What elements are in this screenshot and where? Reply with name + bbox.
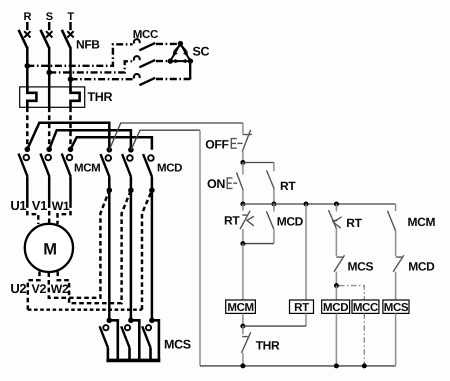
wire dashed R below THR [26, 107, 29, 149]
wire dashed U2 to MCS/MCD pole3 [28, 190, 152, 310]
label OFF [205, 137, 228, 151]
terminal X mark R [24, 31, 30, 37]
wire phase S vertical to THR [48, 47, 51, 107]
label SC [193, 45, 210, 59]
svg-text:MCM: MCM [408, 215, 436, 229]
contactor MCC pole 1 [134, 39, 155, 50]
node bottom rail at MCD [334, 363, 339, 368]
wire dashed U1 to motor [27, 203, 38, 224]
thermal relay THR box [20, 87, 85, 107]
label R [23, 11, 31, 23]
label MCD (interlock) [408, 260, 435, 274]
node MCC link [334, 283, 339, 288]
label MCD (row3) [277, 215, 304, 229]
wire dash-dot row1 R to MCC contact 1 [27, 44, 177, 66]
contact RT NC timed (branch1) [240, 204, 254, 244]
contact MCD interlock (NO) [243, 204, 274, 244]
wire phase R vertical to THR [26, 47, 29, 91]
terminal X mark S [46, 31, 52, 37]
contactor MCS pole 1 [100, 320, 118, 360]
svg-text:MCM: MCM [74, 163, 100, 175]
svg-text:MCS: MCS [384, 302, 409, 314]
wire dash-dot row2 S to MCC contact 2 [49, 61, 167, 72]
wire RT coil bottom to join [243, 313, 306, 326]
contactor MCM pole 2 [40, 154, 51, 204]
node MCD pole 2 top [128, 147, 134, 153]
svg-text:T: T [67, 11, 74, 23]
label ON [207, 177, 225, 191]
pushbutton OFF [231, 130, 252, 163]
breaker NFB pole R blade [19, 30, 28, 48]
svg-text:MCS: MCS [164, 338, 191, 352]
svg-text:NFB: NFB [76, 38, 100, 52]
label W1 [52, 199, 70, 213]
node MCS pole 2 top [128, 318, 134, 324]
svg-text:THR: THR [88, 90, 113, 104]
wire MCD coil bottom [335, 313, 337, 366]
node S tap to MCC [46, 70, 52, 76]
wire control tap L2 to left rail [131, 130, 200, 366]
wire dashed S below THR [48, 107, 51, 149]
coil MCS [383, 300, 409, 314]
wire dash-dot row3 T to SC riser [71, 78, 191, 81]
svg-text:RT: RT [346, 216, 362, 230]
svg-text:RT: RT [294, 302, 309, 314]
motor M [25, 224, 73, 272]
coil MCC [352, 300, 379, 314]
wire MCD coil feed [335, 286, 337, 300]
label S [46, 11, 53, 23]
label MCM (aux) [408, 215, 436, 229]
contactor MCS pole 2 [121, 320, 139, 360]
wire bus R to MCD pole 1 [27, 123, 109, 150]
node MCD pole 2 delta junction [128, 187, 134, 193]
svg-text:MCD: MCD [323, 302, 348, 314]
node R tap to MCC [25, 63, 31, 69]
wire dashed V1 to motor [48, 203, 50, 223]
contactor MCD pole 3 [143, 154, 154, 320]
wire SC right vertex riser [189, 61, 191, 79]
svg-text:MCD: MCD [408, 260, 435, 274]
node row3 bottom [240, 241, 245, 246]
THR heater element R [27, 87, 36, 108]
label THR [88, 90, 113, 104]
label U1 [10, 198, 26, 213]
svg-text:MCS: MCS [348, 260, 374, 274]
label THR (control) [256, 339, 280, 353]
wire dashed W2 to MCD pole2 [58, 190, 131, 303]
wire MCS coil bottom [395, 313, 397, 366]
label W2 [51, 282, 69, 296]
node row3 mid [271, 202, 276, 207]
wire MCM coil bottom [242, 313, 244, 326]
label RT (timed NO) [346, 216, 362, 230]
THR heater element T [71, 87, 80, 108]
svg-text:OFF: OFF [205, 137, 228, 151]
svg-text:V1: V1 [32, 198, 47, 213]
label V2 [32, 282, 47, 296]
wire bus T to MCD pole 3 [71, 137, 152, 150]
svg-text:S: S [46, 11, 53, 23]
contact MCM aux (NO, branch3) [388, 204, 396, 256]
label V1 [32, 198, 47, 213]
node MCD pole 1 delta junction [107, 187, 113, 193]
capacitor bank SC delta symbol [168, 41, 193, 64]
wire MCM coil feed [242, 244, 244, 300]
label T [67, 11, 74, 23]
contactor MCS pole 3 [142, 320, 159, 360]
wire S lead-in stub [48, 22, 51, 30]
contactor MCC pole 2 [134, 56, 155, 67]
svg-text:MCM: MCM [227, 302, 253, 314]
wire control tap L1 to OFF [109, 123, 243, 150]
pushbutton ON [227, 163, 243, 205]
svg-text:MCC: MCC [353, 302, 378, 314]
svg-text:ON: ON [207, 177, 225, 191]
svg-text:W1: W1 [52, 199, 70, 213]
contact MCD interlock NC (branch3) [393, 255, 404, 300]
node RT coil branch top [304, 202, 309, 207]
node MCM/RT join [240, 324, 245, 329]
label MCC [133, 29, 158, 41]
contact THR NC [242, 326, 251, 366]
node MCM pole 1 top [25, 147, 31, 153]
node row3 left [240, 202, 245, 207]
node T tap to MCC [68, 76, 74, 82]
label RT (timed NC) [224, 214, 240, 228]
svg-text:MCD: MCD [157, 163, 182, 175]
svg-text:SC: SC [193, 45, 210, 59]
wire dashed V2 to MCD pole1 [49, 190, 110, 298]
wire dash-dot MCC link [339, 286, 364, 300]
breaker NFB pole S blade [41, 30, 50, 48]
node MCD pole 3 delta junction [149, 187, 155, 193]
contactor MCM pole 1 [19, 154, 30, 204]
svg-text:RT: RT [224, 214, 240, 228]
node MCM pole 2 top [46, 147, 52, 153]
label MCM (power) [74, 163, 100, 175]
wire T lead-in stub [69, 22, 72, 30]
svg-text:V2: V2 [32, 282, 47, 296]
contact MCS interlock NC [334, 255, 345, 285]
breaker NFB pole T blade [62, 30, 71, 48]
node MCD pole 1 top [107, 147, 113, 153]
coil RT [290, 300, 314, 314]
label RT (seal-in) [280, 179, 296, 193]
contact RT NO timed (branch2) [329, 204, 342, 256]
node bottom rail at THR [240, 363, 245, 368]
label NFB [76, 38, 100, 52]
svg-text:MCD: MCD [277, 215, 304, 229]
wire control top rail [243, 203, 396, 205]
svg-text:U1: U1 [10, 198, 26, 213]
MCS star bar [106, 359, 160, 363]
svg-text:M: M [43, 241, 56, 259]
wire bus S to MCD pole 2 [49, 130, 131, 150]
node bottom rail at MCC [362, 363, 367, 368]
contact RT seal-in (NO) [243, 163, 274, 205]
svg-text:THR: THR [256, 339, 280, 353]
wire dashed W1 to motor [58, 203, 71, 224]
coil MCD [322, 300, 350, 314]
coil MCM [226, 300, 256, 314]
contactor MCC pole 3 [134, 74, 155, 85]
wire RT coil feed [305, 204, 307, 300]
label U2 [10, 281, 26, 296]
wire control bottom rail [200, 365, 396, 367]
contactor MCM pole 3 [62, 154, 73, 204]
svg-text:U2: U2 [10, 281, 26, 296]
node MCS pole 3 top [149, 318, 155, 324]
terminal X mark T [67, 31, 73, 37]
svg-text:W2: W2 [51, 282, 69, 296]
node below OFF [240, 160, 245, 165]
svg-text:R: R [23, 11, 31, 23]
wire dash-dot MCC bottom [363, 313, 365, 366]
node branch2 top [334, 202, 339, 207]
node MCM pole 3 top [68, 147, 74, 153]
wire R lead-in stub [26, 22, 29, 30]
label MCS (power) [164, 338, 191, 352]
label MCS (interlock) [348, 260, 374, 274]
contactor MCD pole 2 [122, 154, 133, 320]
contactor MCD pole 1 [101, 154, 112, 320]
wire dashed T below THR [69, 107, 72, 149]
label MCD (power) [157, 163, 182, 175]
node MCS pole 1 top [107, 318, 113, 324]
wire phase T vertical to THR [69, 47, 72, 91]
svg-text:RT: RT [280, 179, 296, 193]
